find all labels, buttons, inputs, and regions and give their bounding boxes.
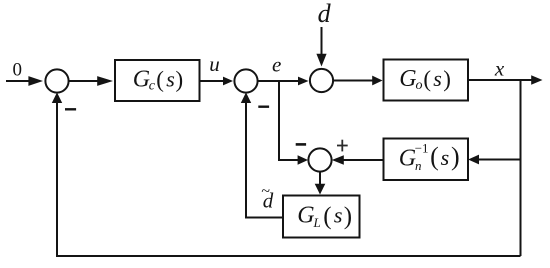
svg-text:s: s: [441, 145, 450, 170]
svg-text:): ): [176, 67, 184, 92]
wire: Go to output x with arrowhead: [468, 75, 543, 84]
wire: S1 to Gc: [69, 76, 113, 86]
svg-text:G: G: [133, 67, 150, 93]
svg-text:): ): [443, 66, 451, 91]
minus sign at S2: [258, 105, 269, 107]
svg-text:G: G: [399, 145, 416, 171]
summer S2: [234, 69, 257, 92]
wire: input into summer S1: [6, 76, 43, 86]
block Gn^-1(s): [384, 139, 469, 181]
wire: Gc to S2: [200, 77, 234, 86]
svg-text:): ): [451, 142, 460, 171]
wire: feedback drop from x line: [520, 80, 522, 256]
plus sign at S4: [337, 140, 348, 152]
wire: S3 to Go: [333, 76, 382, 86]
block GL(s): [283, 196, 360, 238]
svg-text:s: s: [433, 66, 442, 91]
wire: d into S3: [316, 27, 326, 67]
svg-text:s: s: [334, 203, 343, 228]
minus sign at S1: [65, 108, 76, 110]
svg-text:(: (: [156, 67, 164, 92]
wire: bottom feedback loop to S1: [52, 92, 521, 256]
svg-text:): ): [344, 203, 352, 230]
svg-text:L: L: [313, 215, 321, 230]
svg-text:d: d: [318, 0, 332, 28]
wire: S2 to S3: [258, 77, 309, 86]
wire: GL output d tilde up into S2: [241, 92, 283, 217]
svg-text:c: c: [149, 79, 156, 94]
svg-text:(: (: [423, 66, 431, 91]
svg-text:x: x: [494, 57, 505, 81]
block Go(s): [384, 60, 469, 101]
svg-text:(: (: [323, 203, 331, 230]
block Gc(s): [115, 60, 200, 101]
svg-text:0: 0: [13, 60, 23, 81]
svg-text:s: s: [166, 67, 175, 92]
svg-text:G: G: [399, 66, 416, 92]
svg-text:e: e: [272, 53, 281, 77]
svg-text:u: u: [209, 52, 220, 76]
node d tilde: [261, 183, 274, 213]
wire: feedback into Gn inverse: [468, 155, 520, 165]
wire: Gn inverse to S4: [332, 155, 384, 165]
minus sign at S4: [296, 143, 306, 146]
summer S4: [308, 148, 331, 171]
svg-text:(: (: [430, 142, 439, 171]
wire: S4 down into GL: [315, 172, 326, 195]
svg-text:n: n: [415, 158, 422, 173]
wire: e branch down into S4: [279, 81, 308, 165]
svg-text:o: o: [416, 78, 423, 93]
summer S1: [45, 69, 68, 92]
svg-text:−1: −1: [415, 141, 429, 156]
summer S3: [310, 69, 333, 92]
svg-text:G: G: [297, 203, 314, 229]
svg-text:~: ~: [261, 183, 270, 200]
